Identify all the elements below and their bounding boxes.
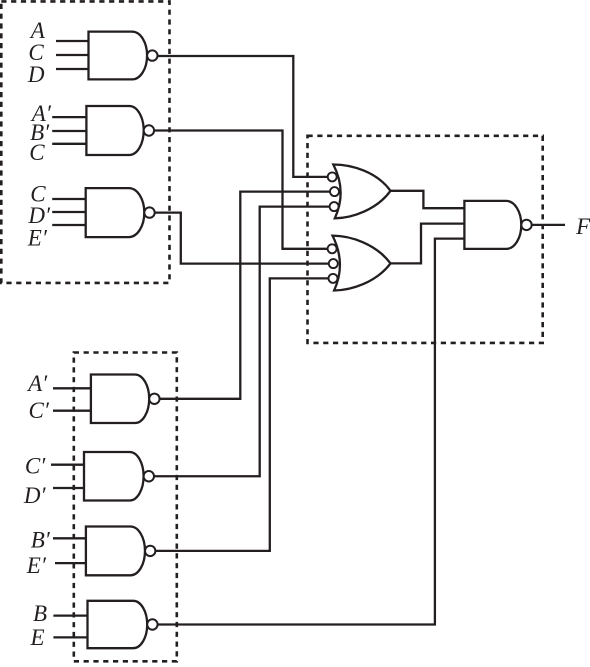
svg-text:D: D — [27, 62, 45, 87]
bubble: OR1 input 2 — [330, 187, 339, 196]
wire: input E' to U6 — [55, 562, 87, 564]
or gate OR1 (negated inputs, top) — [333, 165, 390, 219]
wire: input B' to U6 — [53, 537, 87, 539]
wire: U10 output to F — [527, 224, 566, 226]
wire: input B' to U2 — [52, 130, 87, 132]
dashed box: first-level NAND group (top-left) — [1, 1, 169, 283]
nand gate U5 (inputs C',D') — [84, 452, 144, 501]
svg-text:D′: D′ — [27, 203, 51, 228]
svg-text:E′: E′ — [27, 225, 48, 250]
dashed box: output stage group (middle-right) — [308, 136, 543, 343]
nand gate U10 (output stage) — [464, 201, 521, 249]
bubble: OR2 input 2 — [329, 259, 338, 268]
wire: input C to U2 — [52, 143, 87, 145]
svg-text:B: B — [33, 601, 47, 626]
svg-text:A: A — [29, 18, 46, 43]
bubble: OR1 input 1 — [328, 172, 337, 181]
wire: U3 output to OR2 input 2 — [150, 213, 331, 264]
nand gate U2 (inputs A',B',C) — [86, 106, 143, 155]
wire: OR1 output to U10 input 1 — [390, 191, 464, 208]
nand gate U7 (inputs B,E) — [88, 601, 148, 648]
bubble: U2 output — [144, 125, 154, 135]
bubble: U5 output — [144, 471, 154, 481]
svg-text:E: E — [30, 625, 45, 650]
wire: input A to U1 — [56, 40, 90, 42]
svg-text:E′: E′ — [26, 553, 47, 578]
wire: input E to U7 — [53, 636, 88, 638]
wire: input A' to U4 — [53, 387, 92, 389]
wire: U2 output to OR2 input 1 — [149, 131, 329, 249]
wire: U6 output to OR2 input 3 — [150, 278, 329, 551]
wire: U7 output to U10 input 3 — [152, 239, 464, 625]
wire: input E' to U3 — [52, 224, 86, 226]
bubble: OR1 input 3 — [330, 202, 339, 211]
wire: input C' to U5 — [51, 464, 85, 466]
wire: input D to U1 — [56, 68, 90, 70]
nand gate U4 (inputs A',C') — [91, 375, 149, 424]
bubble: U4 output — [149, 394, 159, 404]
or gate OR2 (negated inputs, bottom) — [333, 236, 391, 291]
wire: OR2 output to U10 input 2 — [390, 224, 464, 264]
svg-text:B′: B′ — [31, 528, 51, 553]
svg-text:A′: A′ — [26, 371, 48, 396]
wire: U1 output to OR1 input 1 — [152, 56, 329, 177]
wire: input C to U1 — [56, 54, 90, 56]
svg-text:C′: C′ — [29, 398, 50, 423]
svg-text:F: F — [575, 214, 590, 239]
wire: input D' to U5 — [53, 487, 85, 489]
nand gate U3 (inputs C,D',E') — [86, 188, 145, 237]
wire: input B to U7 — [53, 614, 88, 616]
bubble: U1 output — [147, 50, 157, 60]
bubble: U10 output — [521, 220, 531, 230]
bubble: U3 output — [144, 207, 154, 217]
wire: input C to U3 — [52, 198, 86, 200]
wire: input C' to U4 — [53, 410, 92, 412]
nand gate U1 (inputs A,C,D) — [89, 32, 148, 80]
nand gate U6 (inputs B',E') — [86, 527, 145, 576]
dashed box: second-level NAND group (bottom-left) — [74, 353, 177, 662]
wire: U4 output to OR1 input 2 — [154, 192, 331, 399]
svg-text:C′: C′ — [25, 454, 46, 479]
wire: input A' to U2 — [52, 116, 87, 118]
wire: input D' to U3 — [52, 211, 86, 213]
bubble: OR2 input 1 — [328, 244, 337, 253]
wire: U5 output to OR1 input 3 — [149, 207, 331, 477]
svg-text:C: C — [29, 140, 45, 165]
svg-text:D′: D′ — [23, 483, 47, 508]
bubble: OR2 input 3 — [329, 274, 338, 283]
bubble: U7 output — [147, 619, 157, 629]
bubble: U6 output — [145, 546, 155, 556]
